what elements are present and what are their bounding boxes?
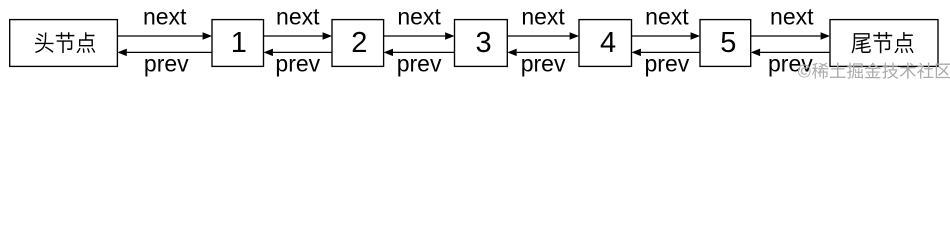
tail node box [830,20,938,67]
wire: next pointer arrow 2 to 3 [384,35,446,37]
wire: prev pointer arrow tail to 5 [760,51,830,53]
node box 5 [700,20,751,67]
svg-text:5: 5 [720,27,736,59]
wire: next pointer arrow 4 to 5 [632,35,691,37]
svg-text:1: 1 [231,27,247,59]
arrowhead next into 1 [203,32,212,40]
svg-text:next: next [645,3,689,29]
svg-text:prev: prev [397,51,442,77]
arrowhead prev into 5 [751,49,760,57]
wire: next pointer arrow 1 to 2 [264,35,323,37]
node box 4 [579,20,632,67]
arrowhead next into tail [821,32,830,40]
node box 3 [455,20,508,67]
svg-text:prev: prev [645,51,690,77]
svg-text:prev: prev [768,51,813,77]
svg-text:next: next [521,3,565,29]
svg-text:prev: prev [521,51,566,77]
svg-text:2: 2 [351,27,367,59]
arrowhead prev into 2 [384,49,393,57]
watermark ©稀土掘金技术社区 [798,62,950,78]
wire: next pointer arrow 3 to 4 [507,35,569,37]
arrowhead prev into 4 [632,49,641,57]
arrowhead next into 5 [691,32,700,40]
head node label 头节点 [35,32,95,53]
head node box [10,20,118,67]
svg-text:3: 3 [476,27,492,59]
arrowhead prev into head [117,49,126,57]
wire: prev pointer arrow 5 to 4 [641,51,700,53]
svg-text:next: next [276,3,320,29]
tail node label 尾节点 [852,32,914,53]
wire: next pointer arrow 5 to tail [751,35,821,37]
wire: prev pointer arrow 2 to 1 [273,51,332,53]
arrowhead prev into 1 [264,49,273,57]
wire: prev pointer arrow 4 to 3 [517,51,579,53]
node box 1 [212,20,264,67]
svg-text:next: next [770,3,814,29]
wire: next pointer arrow head to 1 [117,35,202,37]
arrowhead next into 4 [570,32,579,40]
svg-text:prev: prev [275,51,320,77]
svg-text:prev: prev [144,51,189,77]
wire: prev pointer arrow 3 to 2 [393,51,455,53]
arrowhead next into 2 [323,32,332,40]
arrowhead prev into 3 [507,49,516,57]
wire: prev pointer arrow 1 to head [127,51,212,53]
svg-text:next: next [397,3,441,29]
svg-text:4: 4 [600,27,616,59]
node box 2 [332,20,384,67]
svg-text:next: next [143,3,187,29]
arrowhead next into 3 [445,32,454,40]
